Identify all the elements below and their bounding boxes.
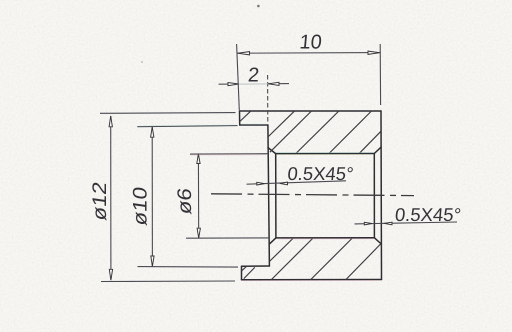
svg-text:ø10: ø10 xyxy=(130,185,151,226)
svg-text:0.5X45°: 0.5X45° xyxy=(287,163,355,184)
svg-text:2: 2 xyxy=(247,65,260,87)
svg-text:ø12: ø12 xyxy=(89,180,110,221)
svg-text:10: 10 xyxy=(299,32,323,54)
svg-text:ø6: ø6 xyxy=(174,187,195,216)
svg-text:0.5X45°: 0.5X45° xyxy=(394,204,462,225)
